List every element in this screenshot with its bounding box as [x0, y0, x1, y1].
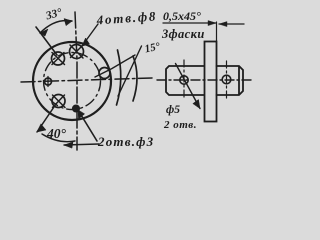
arc 2 — [133, 56, 137, 101]
2otv leader diagonal with arrow — [78, 110, 97, 141]
hole upper-left F8 — [52, 52, 65, 65]
hole top F8 — [70, 45, 84, 59]
15deg leader steep — [118, 46, 142, 96]
small hole left F3 — [45, 77, 52, 87]
left hub — [166, 66, 204, 95]
svg-text:0,5x45°: 0,5x45° — [163, 9, 201, 23]
svg-text:40°: 40° — [46, 126, 67, 141]
hole lower-left F8 — [52, 95, 65, 108]
small hole bottom F3 (dark) — [73, 105, 79, 111]
flange — [205, 42, 217, 122]
33deg arc with arrows — [40, 21, 72, 34]
svg-text:2 отв.: 2 отв. — [163, 119, 197, 131]
svg-text:2отв.ф3: 2отв.ф3 — [97, 134, 154, 149]
4otv leader — [82, 24, 98, 46]
right hub hole — [222, 75, 231, 84]
hole right F8 15deg — [95, 55, 135, 79]
svg-text:ф5: ф5 — [166, 104, 180, 116]
right hub — [217, 66, 244, 95]
40deg arc — [42, 134, 75, 142]
arc 1 — [117, 50, 121, 105]
F5 leader — [176, 64, 201, 109]
bolt circle — [44, 53, 101, 110]
axis — [157, 79, 254, 81]
2otv horizontal with left arrow — [64, 144, 99, 145]
horizontal centerline — [21, 78, 152, 82]
chamfer callout lines — [163, 22, 216, 24]
left hub hole — [180, 76, 188, 84]
svg-text:3фаски: 3фаски — [161, 27, 205, 41]
40deg radial line — [37, 104, 56, 132]
33deg radial line — [36, 27, 57, 55]
outer circle — [33, 42, 111, 120]
vertical centerline — [75, 12, 77, 150]
